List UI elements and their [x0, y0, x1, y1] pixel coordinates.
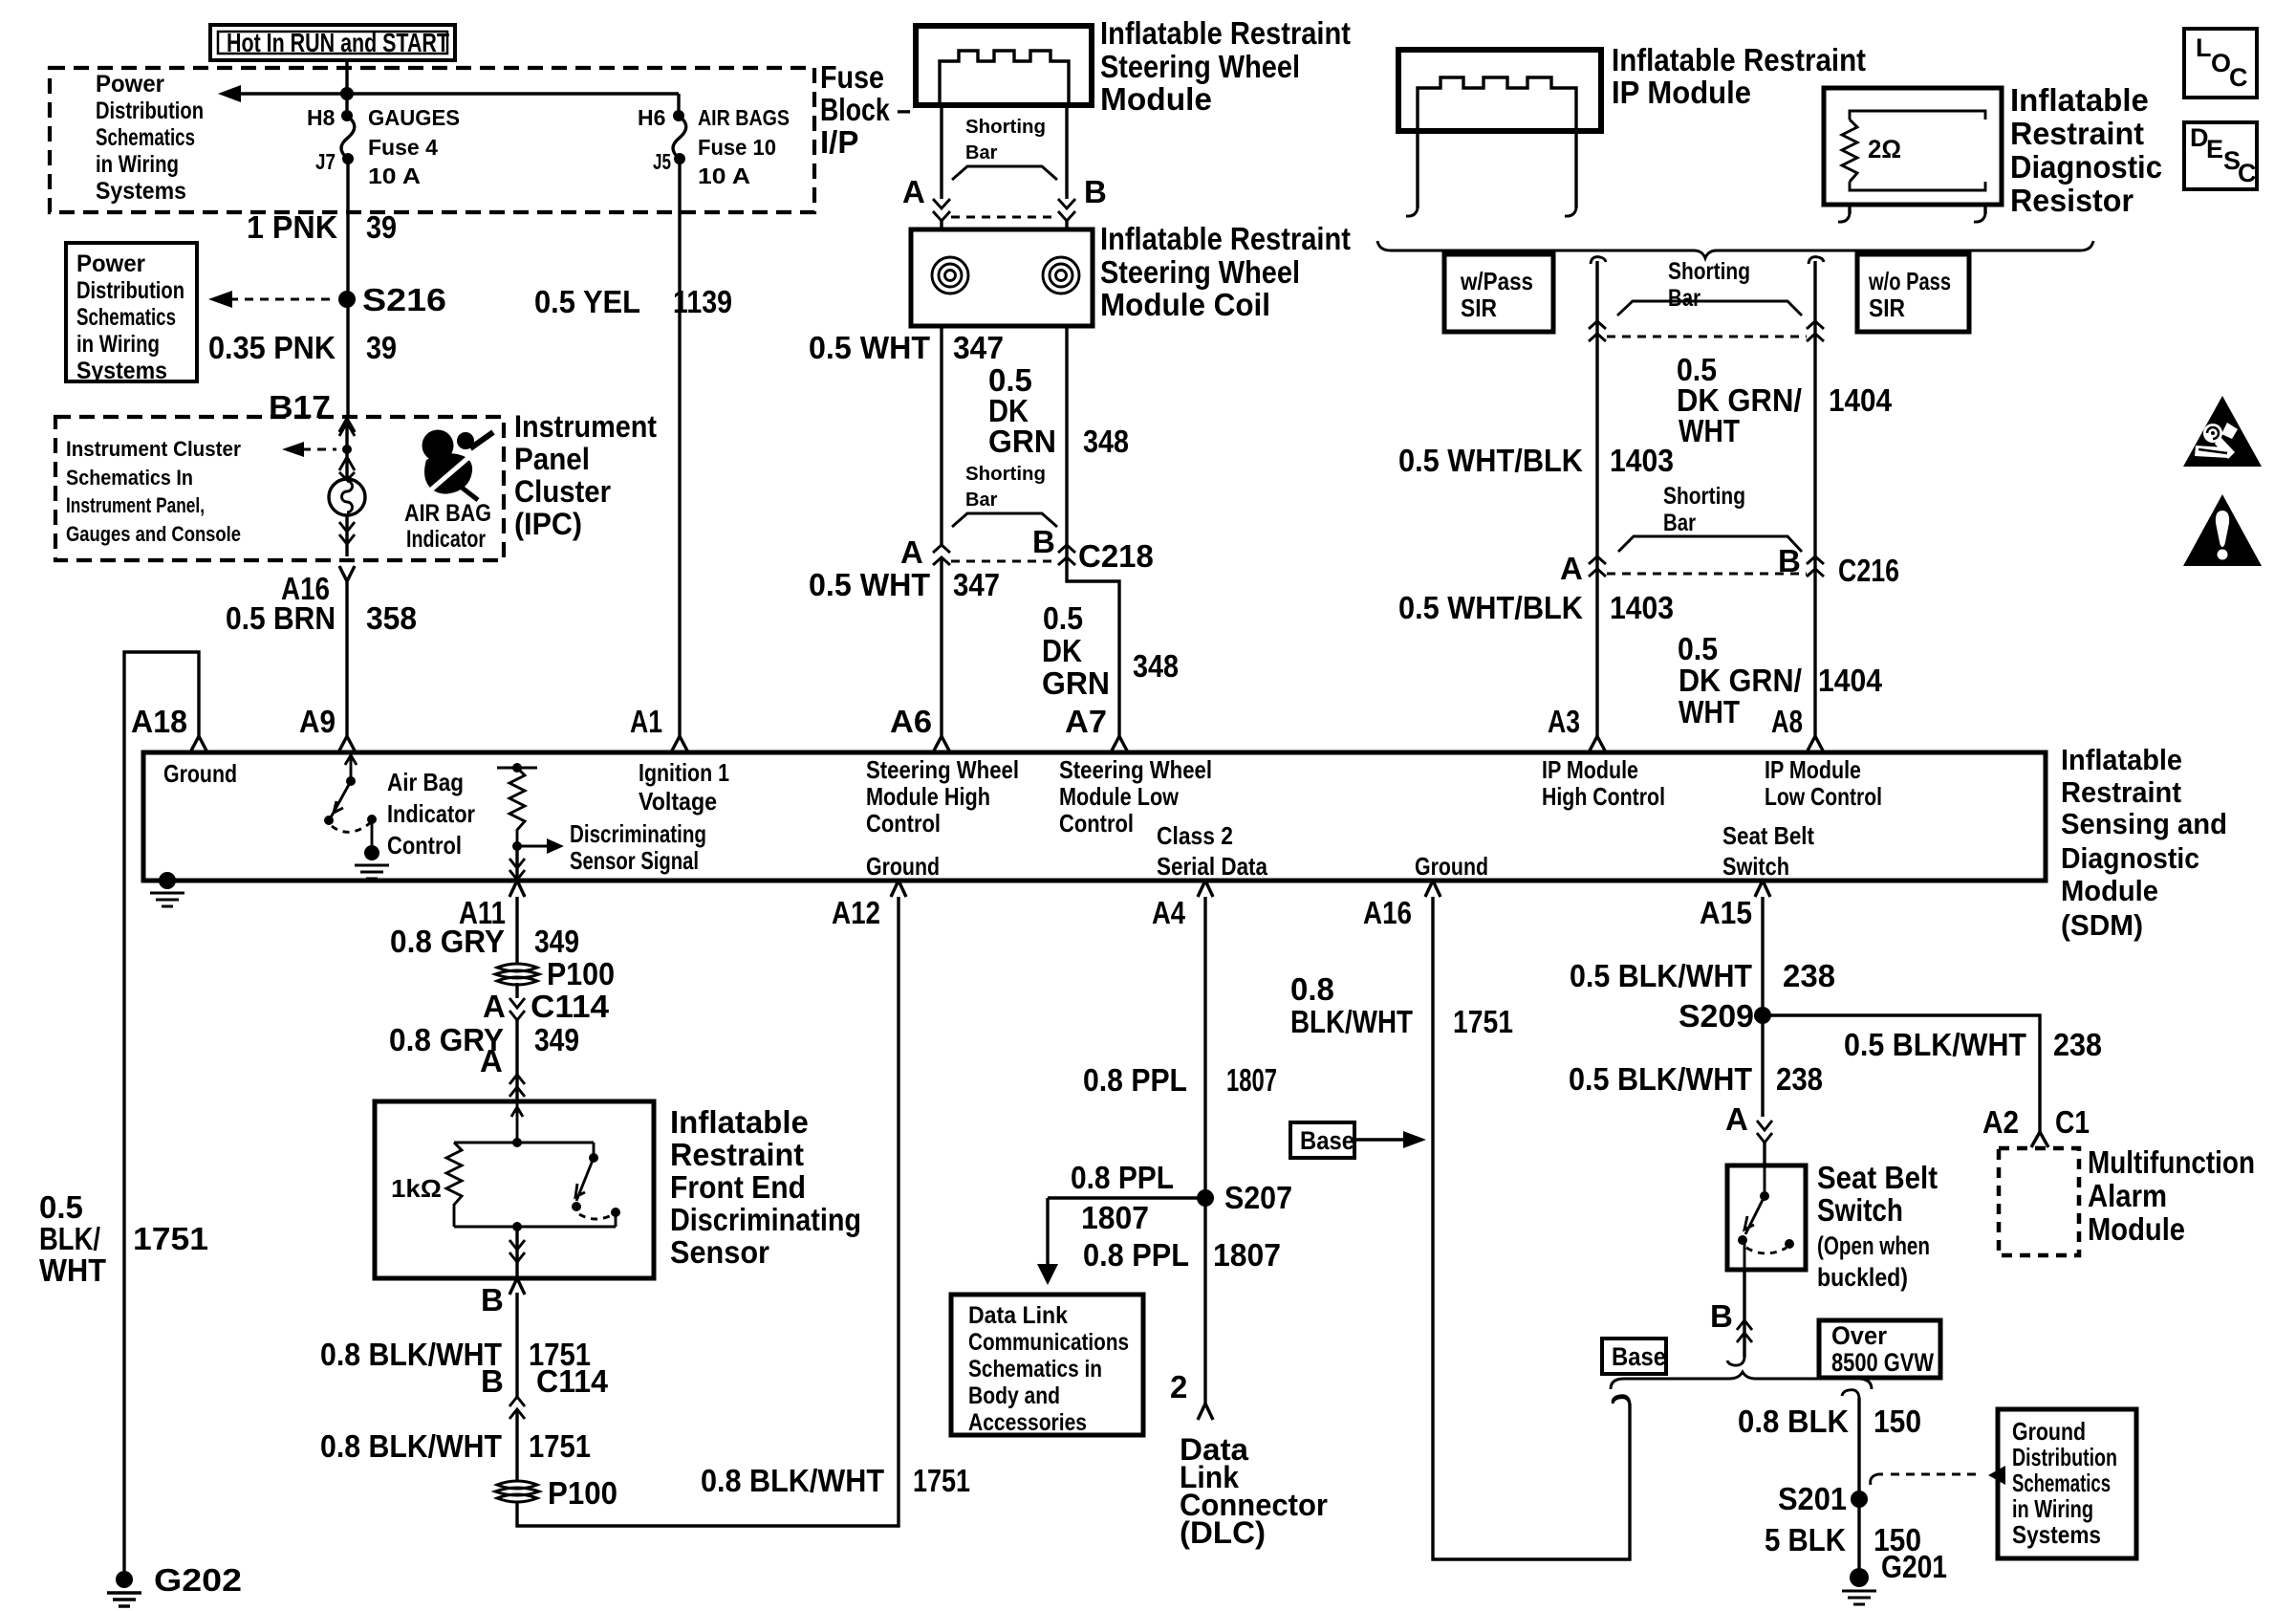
svg-text:Distribution: Distribution — [2012, 1443, 2117, 1471]
svg-text:Air Bag: Air Bag — [387, 768, 464, 796]
svg-text:Schematics: Schematics — [96, 124, 195, 151]
svg-text:(Open when: (Open when — [1817, 1231, 1930, 1260]
svg-text:B: B — [1032, 524, 1055, 559]
svg-text:Indicator: Indicator — [406, 526, 486, 553]
svg-text:347: 347 — [953, 330, 1004, 365]
svg-text:BLK/: BLK/ — [39, 1221, 100, 1256]
svg-text:Accessories: Accessories — [968, 1409, 1087, 1436]
svg-text:Shorting: Shorting — [965, 117, 1046, 138]
svg-text:Ignition 1: Ignition 1 — [639, 758, 729, 787]
svg-text:1kΩ: 1kΩ — [391, 1174, 442, 1203]
svg-text:0.8 BLK: 0.8 BLK — [1738, 1404, 1849, 1439]
svg-text:10 A: 10 A — [368, 163, 421, 188]
svg-text:0.8: 0.8 — [1290, 971, 1334, 1007]
svg-text:Control: Control — [387, 831, 462, 860]
svg-text:IP Module: IP Module — [1542, 755, 1638, 784]
svg-text:C114: C114 — [531, 989, 610, 1024]
svg-text:1807: 1807 — [1081, 1200, 1149, 1235]
svg-text:1404: 1404 — [1818, 663, 1883, 698]
svg-text:BLK/WHT: BLK/WHT — [1290, 1004, 1413, 1039]
svg-text:0.5 BLK/WHT: 0.5 BLK/WHT — [1569, 1061, 1752, 1097]
svg-text:(SDM): (SDM) — [2061, 908, 2143, 942]
svg-text:1403: 1403 — [1610, 590, 1674, 625]
svg-text:Inflatable Restraint: Inflatable Restraint — [1612, 42, 1866, 77]
svg-text:w/Pass: w/Pass — [1460, 267, 1533, 295]
svg-text:Hot In RUN and START: Hot In RUN and START — [227, 28, 449, 57]
svg-text:238: 238 — [1783, 958, 1835, 993]
svg-text:0.5 BLK/WHT: 0.5 BLK/WHT — [1844, 1027, 2026, 1062]
svg-text:Body and: Body and — [968, 1382, 1060, 1409]
svg-text:0.5 WHT/BLK: 0.5 WHT/BLK — [1398, 443, 1583, 478]
svg-text:Module: Module — [2061, 874, 2158, 907]
svg-text:Base: Base — [1612, 1342, 1666, 1371]
svg-text:Ground: Ground — [2012, 1417, 2086, 1446]
svg-text:A: A — [483, 989, 506, 1024]
svg-text:AIR BAG: AIR BAG — [404, 500, 491, 527]
svg-text:Schematics: Schematics — [76, 304, 176, 331]
svg-text:Steering Wheel: Steering Wheel — [1100, 49, 1300, 84]
svg-text:Module: Module — [2088, 1211, 2185, 1247]
svg-text:Base: Base — [1300, 1126, 1354, 1155]
svg-text:1 PNK: 1 PNK — [247, 209, 337, 245]
svg-text:347: 347 — [953, 567, 1000, 602]
svg-text:Steering Wheel: Steering Wheel — [1059, 755, 1212, 784]
svg-text:B: B — [481, 1282, 504, 1317]
svg-text:Bar: Bar — [1668, 285, 1700, 312]
svg-text:0.8 GRY: 0.8 GRY — [390, 924, 505, 959]
svg-text:Indicator: Indicator — [387, 799, 475, 828]
svg-text:Bar: Bar — [1663, 510, 1696, 536]
svg-text:WHT: WHT — [39, 1252, 106, 1288]
svg-text:A15: A15 — [1700, 895, 1752, 930]
svg-text:Panel: Panel — [514, 442, 590, 476]
svg-text:A12: A12 — [832, 895, 880, 930]
svg-text:Power: Power — [76, 250, 145, 277]
svg-text:Distribution: Distribution — [96, 98, 204, 124]
svg-text:Module High: Module High — [866, 782, 990, 811]
svg-text:0.8 PPL: 0.8 PPL — [1083, 1062, 1187, 1098]
svg-text:1807: 1807 — [1226, 1062, 1277, 1098]
svg-text:0.5 YEL: 0.5 YEL — [534, 284, 640, 319]
svg-text:Inflatable Restraint: Inflatable Restraint — [1100, 15, 1351, 51]
svg-text:Seat Belt: Seat Belt — [1817, 1160, 1938, 1195]
svg-text:A18: A18 — [131, 704, 187, 739]
svg-text:B: B — [481, 1363, 504, 1399]
svg-text:1807: 1807 — [1213, 1237, 1281, 1273]
svg-text:1751: 1751 — [133, 1221, 208, 1256]
svg-text:Fuse: Fuse — [820, 59, 884, 95]
svg-text:0.8 PPL: 0.8 PPL — [1071, 1160, 1174, 1195]
svg-text:238: 238 — [1776, 1061, 1823, 1097]
svg-text:Inflatable: Inflatable — [670, 1104, 809, 1140]
svg-text:A: A — [1560, 551, 1583, 586]
svg-text:Instrument Panel,: Instrument Panel, — [66, 493, 205, 517]
svg-text:Ground: Ground — [866, 852, 940, 881]
svg-text:1751: 1751 — [913, 1463, 970, 1498]
svg-text:0.5 WHT: 0.5 WHT — [809, 330, 930, 365]
svg-text:Shorting: Shorting — [1663, 483, 1745, 510]
svg-text:High Control: High Control — [1542, 782, 1665, 811]
svg-text:Communications: Communications — [968, 1329, 1129, 1356]
svg-text:in Wiring: in Wiring — [76, 331, 160, 358]
svg-text:150: 150 — [1874, 1404, 1921, 1439]
svg-text:Sensor Signal: Sensor Signal — [570, 846, 699, 875]
svg-text:Ground: Ground — [163, 759, 237, 788]
svg-text:0.5 WHT: 0.5 WHT — [809, 567, 930, 602]
svg-text:Resistor: Resistor — [2010, 183, 2134, 218]
svg-text:Module Low: Module Low — [1059, 782, 1180, 811]
svg-text:S207: S207 — [1224, 1180, 1292, 1215]
svg-text:Shorting: Shorting — [965, 464, 1046, 485]
svg-text:Schematics: Schematics — [2012, 1469, 2111, 1497]
svg-text:C216: C216 — [1838, 553, 1899, 588]
svg-text:O: O — [2211, 49, 2231, 77]
svg-text:Class 2: Class 2 — [1157, 821, 1233, 850]
svg-text:P100: P100 — [548, 1475, 617, 1511]
svg-text:Systems: Systems — [96, 178, 186, 205]
svg-text:Fuse 4: Fuse 4 — [368, 135, 438, 160]
svg-text:S216: S216 — [362, 282, 446, 317]
svg-text:Inflatable Restraint: Inflatable Restraint — [1100, 221, 1351, 256]
svg-text:C114: C114 — [536, 1363, 609, 1399]
svg-text:Low Control: Low Control — [1765, 782, 1882, 811]
svg-text:Power: Power — [96, 71, 164, 98]
svg-text:A: A — [1725, 1101, 1748, 1137]
svg-text:Block –: Block – — [820, 92, 911, 127]
svg-text:348: 348 — [1133, 648, 1179, 684]
svg-text:Seat Belt: Seat Belt — [1722, 821, 1814, 850]
svg-text:Over: Over — [1831, 1321, 1887, 1350]
svg-text:A9: A9 — [299, 704, 336, 739]
svg-text:Multifunction: Multifunction — [2088, 1144, 2255, 1180]
svg-text:DK GRN/: DK GRN/ — [1679, 663, 1802, 698]
svg-text:A1: A1 — [630, 704, 662, 739]
svg-text:Control: Control — [866, 809, 941, 838]
svg-text:2Ω: 2Ω — [1868, 135, 1901, 163]
svg-text:Discriminating: Discriminating — [670, 1202, 861, 1237]
svg-text:Systems: Systems — [2012, 1520, 2101, 1549]
svg-text:349: 349 — [534, 924, 579, 959]
svg-text:DK: DK — [1042, 633, 1082, 668]
svg-text:A: A — [900, 534, 923, 570]
svg-text:0.8 BLK/WHT: 0.8 BLK/WHT — [320, 1428, 502, 1464]
svg-text:Module: Module — [1100, 81, 1212, 117]
svg-text:10 A: 10 A — [698, 163, 750, 188]
svg-text:Fuse 10: Fuse 10 — [698, 135, 776, 160]
svg-text:Inflatable: Inflatable — [2010, 82, 2149, 118]
svg-text:A: A — [480, 1043, 503, 1078]
svg-text:1751: 1751 — [529, 1428, 591, 1464]
svg-text:IP Module: IP Module — [1612, 75, 1751, 110]
svg-text:J5: J5 — [653, 149, 671, 174]
svg-text:Systems: Systems — [76, 358, 167, 384]
svg-text:E: E — [2206, 135, 2223, 163]
svg-text:Front End: Front End — [670, 1169, 806, 1205]
svg-text:A2: A2 — [1982, 1104, 2019, 1140]
svg-text:w/o Pass: w/o Pass — [1868, 267, 1951, 295]
svg-text:Discriminating: Discriminating — [570, 819, 706, 848]
svg-text:GAUGES: GAUGES — [368, 105, 460, 130]
svg-text:A3: A3 — [1548, 704, 1580, 739]
svg-text:A: A — [902, 174, 925, 209]
svg-text:0.5: 0.5 — [39, 1189, 83, 1225]
svg-text:0.35 PNK: 0.35 PNK — [208, 330, 336, 365]
svg-text:S209: S209 — [1679, 998, 1754, 1034]
svg-text:0.5 WHT/BLK: 0.5 WHT/BLK — [1398, 590, 1583, 625]
svg-text:A8: A8 — [1771, 704, 1803, 739]
svg-text:Restraint: Restraint — [2061, 775, 2181, 809]
svg-text:Gauges and Console: Gauges and Console — [66, 522, 241, 546]
svg-text:(DLC): (DLC) — [1180, 1515, 1266, 1550]
svg-text:B17: B17 — [269, 389, 331, 425]
svg-text:B: B — [1710, 1298, 1733, 1334]
svg-text:in Wiring: in Wiring — [2012, 1494, 2093, 1523]
svg-text:Module Coil: Module Coil — [1100, 287, 1270, 322]
svg-text:1404: 1404 — [1829, 382, 1893, 418]
svg-text:39: 39 — [366, 209, 397, 245]
svg-text:Bar: Bar — [965, 142, 998, 163]
svg-text:GRN: GRN — [1042, 665, 1110, 701]
svg-text:Restraint: Restraint — [670, 1137, 804, 1172]
svg-text:1751: 1751 — [1453, 1004, 1513, 1039]
svg-text:J7: J7 — [315, 149, 336, 174]
svg-text:I/P: I/P — [820, 124, 858, 160]
svg-text:349: 349 — [534, 1022, 579, 1057]
svg-text:1139: 1139 — [673, 284, 732, 319]
svg-text:A16: A16 — [1363, 895, 1412, 930]
svg-text:Switch: Switch — [1722, 852, 1789, 881]
svg-text:0.5: 0.5 — [1043, 600, 1083, 636]
svg-text:buckled): buckled) — [1817, 1263, 1908, 1292]
svg-text:0.8 BLK/WHT: 0.8 BLK/WHT — [320, 1337, 502, 1372]
svg-text:0.8 PPL: 0.8 PPL — [1083, 1237, 1189, 1273]
svg-text:GRN: GRN — [988, 424, 1056, 459]
svg-text:S201: S201 — [1778, 1481, 1847, 1516]
svg-text:L: L — [2196, 33, 2212, 62]
svg-text:C1: C1 — [2055, 1104, 2090, 1140]
svg-text:0.5 BRN: 0.5 BRN — [226, 600, 336, 636]
svg-text:Bar: Bar — [965, 490, 998, 511]
svg-text:(IPC): (IPC) — [514, 507, 582, 541]
svg-text:Inflatable: Inflatable — [2061, 743, 2182, 776]
svg-text:5 BLK: 5 BLK — [1765, 1522, 1846, 1557]
svg-text:A6: A6 — [890, 704, 932, 739]
svg-text:B: B — [1084, 174, 1107, 209]
svg-text:in Wiring: in Wiring — [96, 151, 179, 178]
svg-text:A4: A4 — [1152, 895, 1186, 930]
svg-text:Instrument Cluster: Instrument Cluster — [66, 437, 241, 461]
svg-text:Steering Wheel: Steering Wheel — [866, 755, 1019, 784]
svg-text:Serial Data: Serial Data — [1157, 852, 1267, 881]
svg-text:Sensor: Sensor — [670, 1234, 769, 1270]
svg-text:C: C — [2238, 159, 2257, 187]
svg-text:Instrument: Instrument — [514, 409, 657, 444]
svg-text:Switch: Switch — [1817, 1192, 1903, 1228]
svg-text:C: C — [2229, 63, 2248, 92]
svg-text:G202: G202 — [154, 1562, 242, 1598]
svg-text:AIR BAGS: AIR BAGS — [698, 105, 790, 130]
svg-text:Diagnostic: Diagnostic — [2061, 841, 2199, 875]
svg-text:238: 238 — [2053, 1027, 2102, 1062]
svg-text:WHT: WHT — [1679, 413, 1740, 448]
svg-text:SIR: SIR — [1869, 294, 1905, 322]
svg-text:Voltage: Voltage — [639, 787, 717, 816]
svg-text:Diagnostic: Diagnostic — [2010, 149, 2162, 185]
svg-text:Schematics in: Schematics in — [968, 1356, 1102, 1382]
svg-text:A7: A7 — [1065, 704, 1107, 739]
svg-text:348: 348 — [1083, 424, 1129, 459]
svg-text:P100: P100 — [547, 956, 615, 991]
svg-text:Distribution: Distribution — [76, 277, 184, 304]
svg-text:Steering Wheel: Steering Wheel — [1100, 254, 1300, 290]
svg-text:Sensing and: Sensing and — [2061, 807, 2227, 840]
svg-text:SIR: SIR — [1461, 294, 1497, 322]
svg-text:H8: H8 — [307, 105, 336, 130]
svg-text:IP Module: IP Module — [1765, 755, 1861, 784]
svg-text:8500 GVW: 8500 GVW — [1831, 1348, 1934, 1377]
svg-text:C218: C218 — [1078, 538, 1154, 574]
svg-text:1403: 1403 — [1610, 443, 1674, 478]
svg-text:Schematics In: Schematics In — [66, 466, 193, 490]
svg-text:Ground: Ground — [1415, 852, 1488, 881]
svg-text:39: 39 — [366, 330, 397, 365]
svg-text:0.5: 0.5 — [1678, 631, 1718, 666]
svg-text:Cluster: Cluster — [514, 474, 611, 509]
svg-text:0.5 BLK/WHT: 0.5 BLK/WHT — [1570, 958, 1752, 993]
svg-text:Restraint: Restraint — [2010, 116, 2144, 151]
svg-text:0.8 BLK/WHT: 0.8 BLK/WHT — [701, 1463, 884, 1498]
svg-text:B: B — [1778, 543, 1801, 578]
svg-text:WHT: WHT — [1679, 694, 1740, 729]
svg-text:Data Link: Data Link — [968, 1302, 1068, 1329]
svg-text:Shorting: Shorting — [1668, 258, 1750, 285]
svg-text:G201: G201 — [1881, 1549, 1947, 1584]
svg-text:Alarm: Alarm — [2088, 1178, 2167, 1213]
svg-text:2: 2 — [1170, 1369, 1187, 1404]
svg-text:H6: H6 — [638, 105, 665, 130]
svg-text:Control: Control — [1059, 809, 1134, 838]
svg-text:358: 358 — [366, 600, 417, 636]
